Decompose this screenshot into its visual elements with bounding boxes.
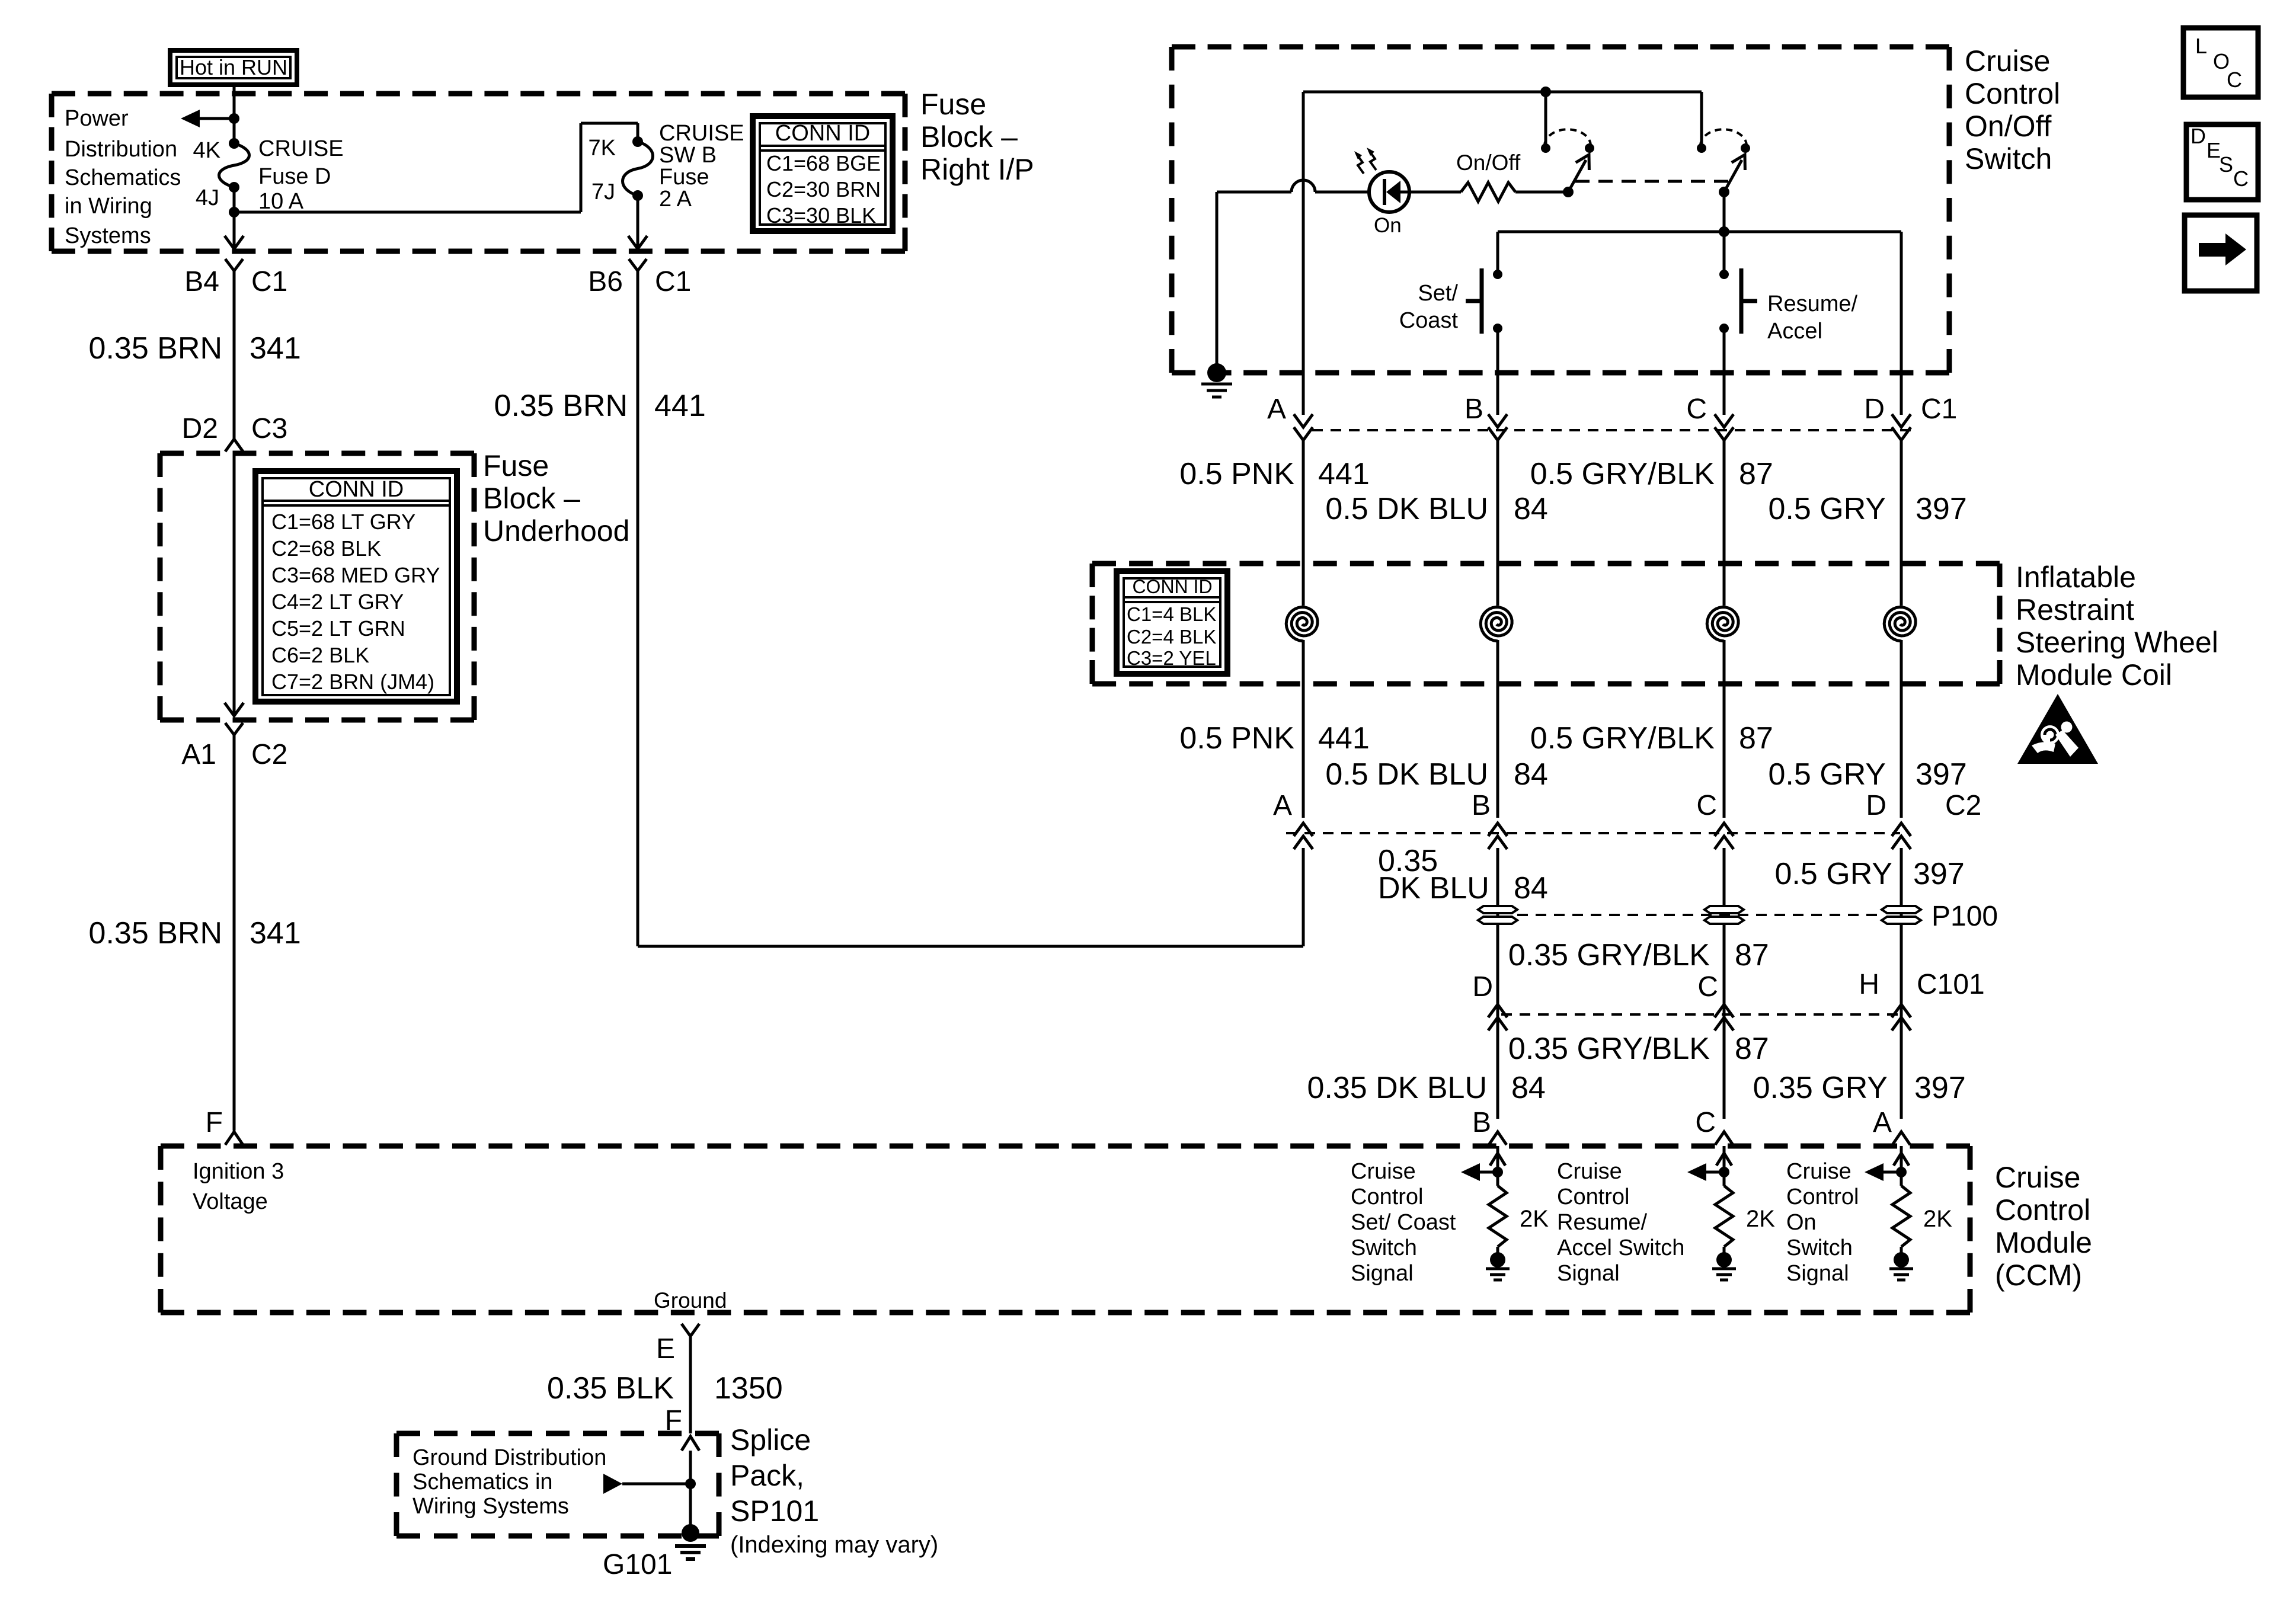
wire: S2 pivot down to mid rail (1723, 192, 1726, 232)
svg-text:A: A (1873, 1107, 1892, 1138)
connector chevron at F into CCM (225, 1132, 243, 1145)
SRS warning triangle icon (2017, 694, 2098, 764)
svg-text:441: 441 (1318, 457, 1370, 491)
wire D: row C2 to CCM (1900, 848, 1903, 1119)
connector chevron B into CCM (1489, 1132, 1507, 1145)
wire D lower in coil box (1900, 640, 1903, 818)
svg-text:C3=30 BLK: C3=30 BLK (766, 203, 876, 228)
svg-text:C: C (2233, 167, 2249, 191)
svg-text:B6: B6 (588, 266, 623, 297)
junction on rail (1540, 87, 1551, 97)
svg-text:B: B (1472, 790, 1491, 821)
svg-text:0.5 DK BLU: 0.5 DK BLU (1325, 757, 1488, 792)
CONN ID table (coil) (1117, 571, 1227, 674)
svg-text:2K: 2K (1923, 1206, 1952, 1232)
wire: top rail (1303, 91, 1702, 94)
junction on mid rail (1719, 226, 1729, 237)
svg-text:341: 341 (250, 916, 301, 950)
svg-text:C2: C2 (1945, 790, 1981, 821)
svg-text:C2=68 BLK: C2=68 BLK (271, 536, 381, 561)
svg-text:0.5 GRY: 0.5 GRY (1775, 857, 1892, 891)
svg-text:Ground Distribution: Ground Distribution (412, 1445, 606, 1470)
svg-text:CONN ID: CONN ID (775, 121, 870, 146)
svg-text:D: D (1864, 393, 1885, 425)
svg-text:C5=2 LT GRN: C5=2 LT GRN (271, 616, 405, 641)
wire B into row C1 (1496, 373, 1499, 415)
switch S1 arm (1568, 160, 1586, 192)
svg-text:84: 84 (1514, 757, 1548, 792)
wire C upper in coil box (1723, 440, 1726, 606)
svg-text:G101: G101 (603, 1549, 672, 1580)
wire: branch from fuse D to fuse SW B (234, 211, 581, 214)
svg-text:C3=2 YEL: C3=2 YEL (1127, 647, 1216, 669)
icon box LOC (2183, 28, 2258, 97)
svg-text:C: C (1695, 1107, 1716, 1138)
resistor 2K (1715, 1186, 1733, 1247)
svg-text:Block –: Block – (483, 482, 580, 515)
wire: mid rail (1498, 231, 1901, 233)
wire B: row C2 to CCM (1496, 848, 1499, 1119)
wire hump over column A (1291, 180, 1315, 192)
svg-text:E: E (656, 1333, 675, 1365)
switch S1 left contact (1541, 143, 1550, 153)
svg-text:7K: 7K (589, 136, 616, 161)
connector P100 dashed line (1517, 914, 1882, 916)
switch S2 dashed arc (1700, 129, 1747, 146)
svg-text:B: B (1472, 1107, 1491, 1138)
svg-text:Power: Power (65, 106, 129, 131)
svg-text:C2=4 BLK: C2=4 BLK (1127, 626, 1216, 648)
switch S1 dashed arc (1544, 129, 1591, 146)
ground symbol (CCM) (1889, 1267, 1913, 1270)
wire: Hot in RUN to fuse D (233, 85, 236, 143)
arrowhead up (CCM entry) (1490, 1153, 1505, 1166)
svg-text:Module: Module (1995, 1226, 2092, 1259)
wire resistor to ground (1900, 1247, 1903, 1254)
connector arrow+fork at B4/C1 (225, 236, 244, 249)
svg-text:Wiring Systems: Wiring Systems (412, 1494, 569, 1519)
connector arrow+fork A/C1 (1294, 414, 1313, 427)
switch S2 arm (1724, 160, 1742, 192)
svg-text:C1=68 LT GRY: C1=68 LT GRY (271, 510, 415, 534)
junction node (CCM) (1719, 1167, 1729, 1177)
svg-text:2K: 2K (1746, 1206, 1775, 1232)
wire 1350 BLK (689, 1336, 692, 1433)
ground node G101 (682, 1524, 699, 1542)
label box 'Hot in RUN' (170, 50, 297, 85)
svg-text:0.35 GRY/BLK: 0.35 GRY/BLK (1508, 1032, 1710, 1066)
fuse D terminal 4K (229, 138, 239, 149)
svg-text:Signal: Signal (1786, 1261, 1849, 1286)
svg-text:DK BLU: DK BLU (1378, 871, 1489, 905)
svg-text:Module Coil: Module Coil (2016, 658, 2172, 692)
svg-text:C101: C101 (1917, 969, 1985, 1000)
svg-text:D2: D2 (182, 413, 218, 444)
svg-text:Steering Wheel: Steering Wheel (2016, 626, 2218, 659)
wire resistor to ground (1723, 1247, 1726, 1254)
wire: Resume/Accel to box edge (1723, 328, 1726, 373)
connector arrow+fork A/C2 (1294, 836, 1313, 849)
dashed box: Splice Pack SP101 (396, 1431, 719, 1436)
svg-text:Ground: Ground (654, 1288, 727, 1313)
wire A into row C1 (1302, 373, 1305, 415)
svg-text:0.5 DK BLU: 0.5 DK BLU (1325, 492, 1488, 526)
svg-text:Set/: Set/ (1418, 281, 1458, 306)
svg-text:in Wiring: in Wiring (65, 194, 152, 219)
svg-text:C1=4 BLK: C1=4 BLK (1127, 603, 1216, 625)
svg-text:B4: B4 (184, 266, 219, 297)
svg-text:Schematics in: Schematics in (412, 1470, 553, 1494)
wire: fuse D to junction (233, 187, 236, 212)
ground node (CCM) (1716, 1252, 1732, 1267)
junction node (CCM) (1492, 1167, 1503, 1177)
svg-text:Set/ Coast: Set/ Coast (1351, 1210, 1456, 1235)
junction node below fuse D (229, 207, 239, 217)
svg-text:Control: Control (1786, 1185, 1859, 1209)
svg-text:Block –: Block – (920, 120, 1018, 153)
wire: ground riser to LED (1216, 192, 1219, 373)
wire C: row C2 to CCM (1723, 848, 1726, 1119)
svg-text:On: On (1786, 1210, 1817, 1235)
svg-text:A1: A1 (181, 739, 216, 770)
svg-text:0.35 DK BLU: 0.35 DK BLU (1307, 1071, 1488, 1105)
connector fork at D2/C3 (225, 439, 243, 452)
svg-text:0.35 BRN: 0.35 BRN (89, 331, 222, 366)
svg-text:0.35 BRN: 0.35 BRN (494, 389, 628, 423)
connector chevron into splice pack (682, 1436, 699, 1451)
svg-text:0.5 GRY: 0.5 GRY (1769, 492, 1886, 526)
svg-text:0.35 BRN: 0.35 BRN (89, 916, 222, 950)
svg-text:C: C (1686, 393, 1707, 425)
wire: column A lower segment (1302, 848, 1305, 946)
ground node in switch box (1207, 363, 1226, 382)
resistor 2K (1489, 1186, 1507, 1247)
svg-text:A: A (1273, 790, 1292, 821)
wire: fuse D output down to B4 connector (233, 212, 236, 248)
wire resistor to ground (1496, 1247, 1499, 1254)
svg-text:C1=68 BGE: C1=68 BGE (766, 151, 881, 175)
svg-text:0.35 GRY/BLK: 0.35 GRY/BLK (1508, 938, 1710, 972)
fuse CRUISE Fuse D 10A (219, 143, 250, 187)
svg-text:10 A: 10 A (258, 189, 304, 214)
svg-text:441: 441 (1318, 721, 1370, 756)
switch Set/Coast top contact (1493, 270, 1502, 279)
arrow to signal (left) (1703, 1171, 1724, 1174)
dashed box: Cruise Control Module (CCM) (161, 1144, 1970, 1149)
fuse SW B terminal 7K (632, 136, 643, 147)
svg-text:Fuse: Fuse (920, 88, 986, 121)
svg-text:C6=2 BLK: C6=2 BLK (271, 643, 369, 667)
switch Resume/Accel actuator bar (1739, 268, 1744, 334)
switch Resume/Accel top contact (1719, 270, 1729, 279)
svg-text:C3=68 MED GRY: C3=68 MED GRY (271, 563, 440, 587)
svg-text:D: D (2191, 124, 2206, 148)
wire: rail branch to S1 left contact (1544, 92, 1547, 148)
svg-text:C: C (1697, 971, 1718, 1003)
svg-text:7J: 7J (591, 180, 615, 204)
svg-text:On/Off: On/Off (1965, 110, 2051, 143)
svg-text:341: 341 (250, 331, 301, 366)
wire inside splice pack (689, 1451, 692, 1533)
svg-text:Ignition 3: Ignition 3 (193, 1159, 284, 1184)
coil spiral (C) (1707, 607, 1738, 642)
dashed box: Cruise Control On/Off Switch (1172, 44, 1949, 50)
wire: resistor to switch pivot (1515, 191, 1568, 194)
connector arrow+fork D/C1 (1892, 414, 1911, 427)
svg-text:0.5 PNK: 0.5 PNK (1179, 721, 1294, 756)
coil spiral (A) (1286, 607, 1318, 642)
wire D into row C1 (1900, 373, 1903, 415)
connector arrow+fork D/C2 (1892, 836, 1911, 849)
svg-text:Fuse: Fuse (483, 449, 549, 482)
wire into CCM at x=3208 (1900, 1146, 1903, 1186)
wire into CCM at x=2909 (1723, 1146, 1726, 1186)
connector arrow+fork B/C2 (1488, 836, 1507, 849)
svg-text:Control: Control (1557, 1185, 1630, 1209)
svg-text:Resume/: Resume/ (1557, 1210, 1647, 1235)
wire: Set/Coast to box edge (1496, 328, 1499, 373)
svg-text:Fuse D: Fuse D (258, 164, 331, 189)
wire 441 BRN: B6 down (637, 271, 639, 946)
svg-text:441: 441 (654, 389, 706, 423)
connector chevron A into CCM (1892, 1132, 1910, 1145)
switch Resume/Accel bottom contact (1719, 324, 1729, 333)
ground symbol G101 (675, 1544, 706, 1548)
wire: mid rail corner to column D (1900, 232, 1903, 373)
svg-text:S: S (2219, 152, 2233, 177)
CONN ID table (Fuse Block - Right I/P) (753, 116, 893, 231)
ground symbol (CCM) (1486, 1267, 1510, 1270)
svg-text:Cruise: Cruise (1995, 1161, 2080, 1194)
connector arrow+fork C/C101 (1715, 1017, 1734, 1030)
svg-text:CRUISE: CRUISE (258, 136, 344, 161)
svg-text:Schematics: Schematics (65, 165, 181, 190)
svg-text:Coast: Coast (1399, 308, 1459, 333)
svg-text:0.35 GRY: 0.35 GRY (1753, 1071, 1888, 1105)
svg-text:C7=2 BRN (JM4): C7=2 BRN (JM4) (271, 670, 434, 694)
svg-text:1350: 1350 (714, 1371, 783, 1406)
arrow to ground distribution (right-pointing) (603, 1474, 622, 1494)
svg-text:C: C (2227, 68, 2242, 92)
svg-text:Splice: Splice (730, 1423, 811, 1457)
connector arrow+fork at A1/C2 (225, 703, 244, 716)
svg-text:On: On (1374, 214, 1402, 237)
svg-text:Accel Switch: Accel Switch (1557, 1235, 1684, 1260)
connector arrow+fork C/C2 (1715, 836, 1734, 849)
fuse SW B terminal 7J (632, 190, 643, 201)
wire: LED to resistor (1409, 191, 1461, 194)
svg-text:C: C (1696, 790, 1717, 821)
switch Set/Coast actuator bar (1480, 268, 1484, 334)
resistor 2K (1892, 1186, 1910, 1247)
svg-text:C1: C1 (1921, 393, 1957, 425)
wire B upper in coil box (1496, 440, 1499, 606)
svg-text:397: 397 (1916, 492, 1967, 526)
wire: column A inside switch box (1302, 92, 1305, 373)
svg-text:397: 397 (1914, 1071, 1966, 1105)
svg-text:Control: Control (1995, 1193, 2090, 1227)
ground node (CCM) (1490, 1252, 1505, 1267)
dashed box: Fuse Block - Underhood (160, 451, 474, 456)
svg-text:D: D (1472, 971, 1493, 1003)
svg-text:Fuse: Fuse (659, 165, 709, 190)
wire D upper in coil box (1900, 440, 1903, 606)
svg-text:On/Off: On/Off (1456, 151, 1521, 175)
icon box arrow (2185, 215, 2257, 291)
svg-text:D: D (1866, 790, 1886, 821)
arrow to signal (left) (1476, 1171, 1498, 1174)
arrowhead up (CCM entry) (1894, 1153, 1909, 1166)
svg-text:0.5 GRY: 0.5 GRY (1769, 757, 1886, 792)
connector row C1 dashed line (1312, 429, 1911, 431)
dashed box: Power Distribution (Fuse Block - Right I/P) (52, 91, 905, 97)
connector arrow+fork H/C101 (1892, 1017, 1911, 1030)
svg-text:84: 84 (1514, 492, 1548, 526)
connector arrow+fork C/C1 (1715, 414, 1734, 427)
ground symbol (CCM) (1712, 1267, 1736, 1270)
resistor On/Off switch (1461, 183, 1515, 201)
switch Set/Coast bottom contact (1493, 324, 1502, 333)
svg-text:Accel: Accel (1767, 319, 1822, 344)
svg-text:0.5 GRY/BLK: 0.5 GRY/BLK (1530, 721, 1715, 756)
svg-text:Cruise: Cruise (1965, 44, 2050, 78)
svg-text:Switch: Switch (1786, 1235, 1853, 1260)
switch S1 pivot (1563, 187, 1574, 197)
svg-text:SP101: SP101 (730, 1494, 819, 1528)
wire 341 BRN: A1 to F (233, 735, 236, 1131)
svg-text:Cruise: Cruise (1351, 1159, 1416, 1184)
LED diode symbol (1383, 179, 1386, 205)
svg-text:C3: C3 (251, 413, 287, 444)
svg-text:0.5 GRY/BLK: 0.5 GRY/BLK (1530, 457, 1715, 491)
wire A lower in coil box (1302, 640, 1305, 818)
svg-text:87: 87 (1739, 721, 1773, 756)
svg-text:87: 87 (1739, 457, 1773, 491)
svg-text:C1: C1 (655, 266, 691, 297)
switch S2 right contact (1741, 143, 1750, 153)
wire A upper in coil box (1302, 440, 1305, 606)
switch S1 right contact (1585, 143, 1594, 153)
svg-text:2 A: 2 A (659, 187, 692, 212)
svg-text:Right I/P: Right I/P (920, 153, 1034, 186)
svg-text:2K: 2K (1520, 1206, 1549, 1232)
arrowhead up (CCM entry) (1716, 1153, 1732, 1166)
svg-text:F: F (206, 1107, 223, 1138)
svg-text:Resume/: Resume/ (1767, 292, 1857, 316)
connector fork E below CCM (682, 1324, 699, 1336)
svg-text:Restraint: Restraint (2016, 593, 2134, 626)
svg-text:P100: P100 (1932, 901, 1998, 932)
ganged switch dashed link (1575, 180, 1730, 183)
svg-text:C2=30 BRN: C2=30 BRN (766, 177, 881, 201)
svg-text:Switch: Switch (1965, 142, 2052, 175)
svg-text:0.5 PNK: 0.5 PNK (1179, 457, 1294, 491)
CONN ID table (Fuse Block - Underhood) (255, 471, 457, 702)
svg-text:Cruise: Cruise (1557, 1159, 1622, 1184)
svg-text:4K: 4K (193, 138, 220, 163)
junction node (splice) (685, 1478, 696, 1489)
svg-text:84: 84 (1511, 1071, 1546, 1105)
svg-text:CONN ID: CONN ID (309, 477, 404, 502)
dashed box: Inflatable Restraint Steering Wheel Module Coil (1092, 561, 2000, 566)
wire 341 BRN: B4 to D2 (233, 271, 236, 438)
svg-text:C2: C2 (251, 739, 287, 770)
svg-text:Hot in RUN: Hot in RUN (180, 55, 287, 79)
svg-text:0.35 BLK: 0.35 BLK (547, 1371, 674, 1406)
svg-text:Cruise: Cruise (1786, 1159, 1851, 1184)
wire: mid rail corner to Set/Coast (1496, 232, 1499, 274)
wire into CCM at x=2527 (1496, 1146, 1499, 1186)
connector row C101 dashed line (1501, 1013, 1898, 1016)
connector chevron C into CCM (1715, 1132, 1733, 1145)
switch S2 pivot (1719, 187, 1729, 197)
arrow to power distribution (left) (196, 117, 234, 120)
svg-text:Inflatable: Inflatable (2016, 561, 2136, 594)
icon box DESC (2186, 124, 2258, 200)
svg-text:397: 397 (1916, 757, 1967, 792)
connector arrow+fork at B6/C1 (628, 236, 647, 249)
svg-text:H: H (1859, 969, 1879, 1000)
LED light arrows (1357, 154, 1364, 174)
svg-text:CONN ID: CONN ID (1132, 576, 1212, 597)
svg-text:Distribution: Distribution (65, 137, 177, 162)
wire: fuse SW B down to B6 connector (637, 196, 639, 248)
svg-text:C4=2 LT GRY: C4=2 LT GRY (271, 590, 404, 614)
svg-text:(CCM): (CCM) (1995, 1259, 2082, 1292)
svg-text:84: 84 (1514, 871, 1548, 905)
svg-text:CRUISE: CRUISE (659, 121, 744, 146)
svg-text:SW B: SW B (659, 143, 717, 168)
svg-text:397: 397 (1913, 857, 1965, 891)
wire: 441 horizontal run to switch column A (638, 945, 1303, 948)
svg-text:(Indexing may vary): (Indexing may vary) (730, 1532, 938, 1558)
ground node (CCM) (1894, 1252, 1909, 1267)
svg-text:Control: Control (1965, 77, 2060, 110)
connector P100 symbols (1478, 906, 1517, 913)
junction node (229, 113, 239, 124)
coil spiral (B) (1480, 607, 1512, 642)
svg-text:Pack,: Pack, (730, 1459, 804, 1492)
wire C into row C1 (1723, 373, 1726, 415)
coil spiral (D) (1884, 607, 1916, 642)
svg-text:B: B (1464, 393, 1483, 425)
svg-text:Signal: Signal (1557, 1261, 1620, 1286)
svg-text:4J: 4J (196, 185, 219, 210)
svg-text:87: 87 (1735, 1032, 1769, 1066)
svg-text:C1: C1 (251, 266, 287, 297)
svg-text:A: A (1267, 393, 1286, 425)
svg-text:L: L (2195, 34, 2207, 58)
ground symbol (switch box) (1201, 383, 1232, 386)
svg-text:Systems: Systems (65, 223, 151, 248)
wire C lower in coil box (1723, 640, 1726, 818)
wire B lower in coil box (1496, 640, 1499, 818)
svg-text:87: 87 (1735, 938, 1769, 972)
switch S2 left contact (1697, 143, 1706, 153)
svg-text:Underhood: Underhood (483, 514, 629, 548)
connector row C2 dashed line (1286, 832, 1900, 834)
svg-text:Switch: Switch (1351, 1235, 1417, 1260)
fuse D terminal 4J (229, 182, 239, 193)
svg-text:Voltage: Voltage (193, 1189, 268, 1214)
connector arrow+fork B/C1 (1488, 414, 1507, 427)
junction node (CCM) (1896, 1167, 1907, 1177)
connector arrow+fork D/C101 (1488, 1017, 1507, 1030)
svg-text:Signal: Signal (1351, 1261, 1414, 1286)
svg-text:Control: Control (1351, 1185, 1424, 1209)
arrow to signal (left) (1880, 1171, 1901, 1174)
wire through underhood box (233, 452, 236, 714)
